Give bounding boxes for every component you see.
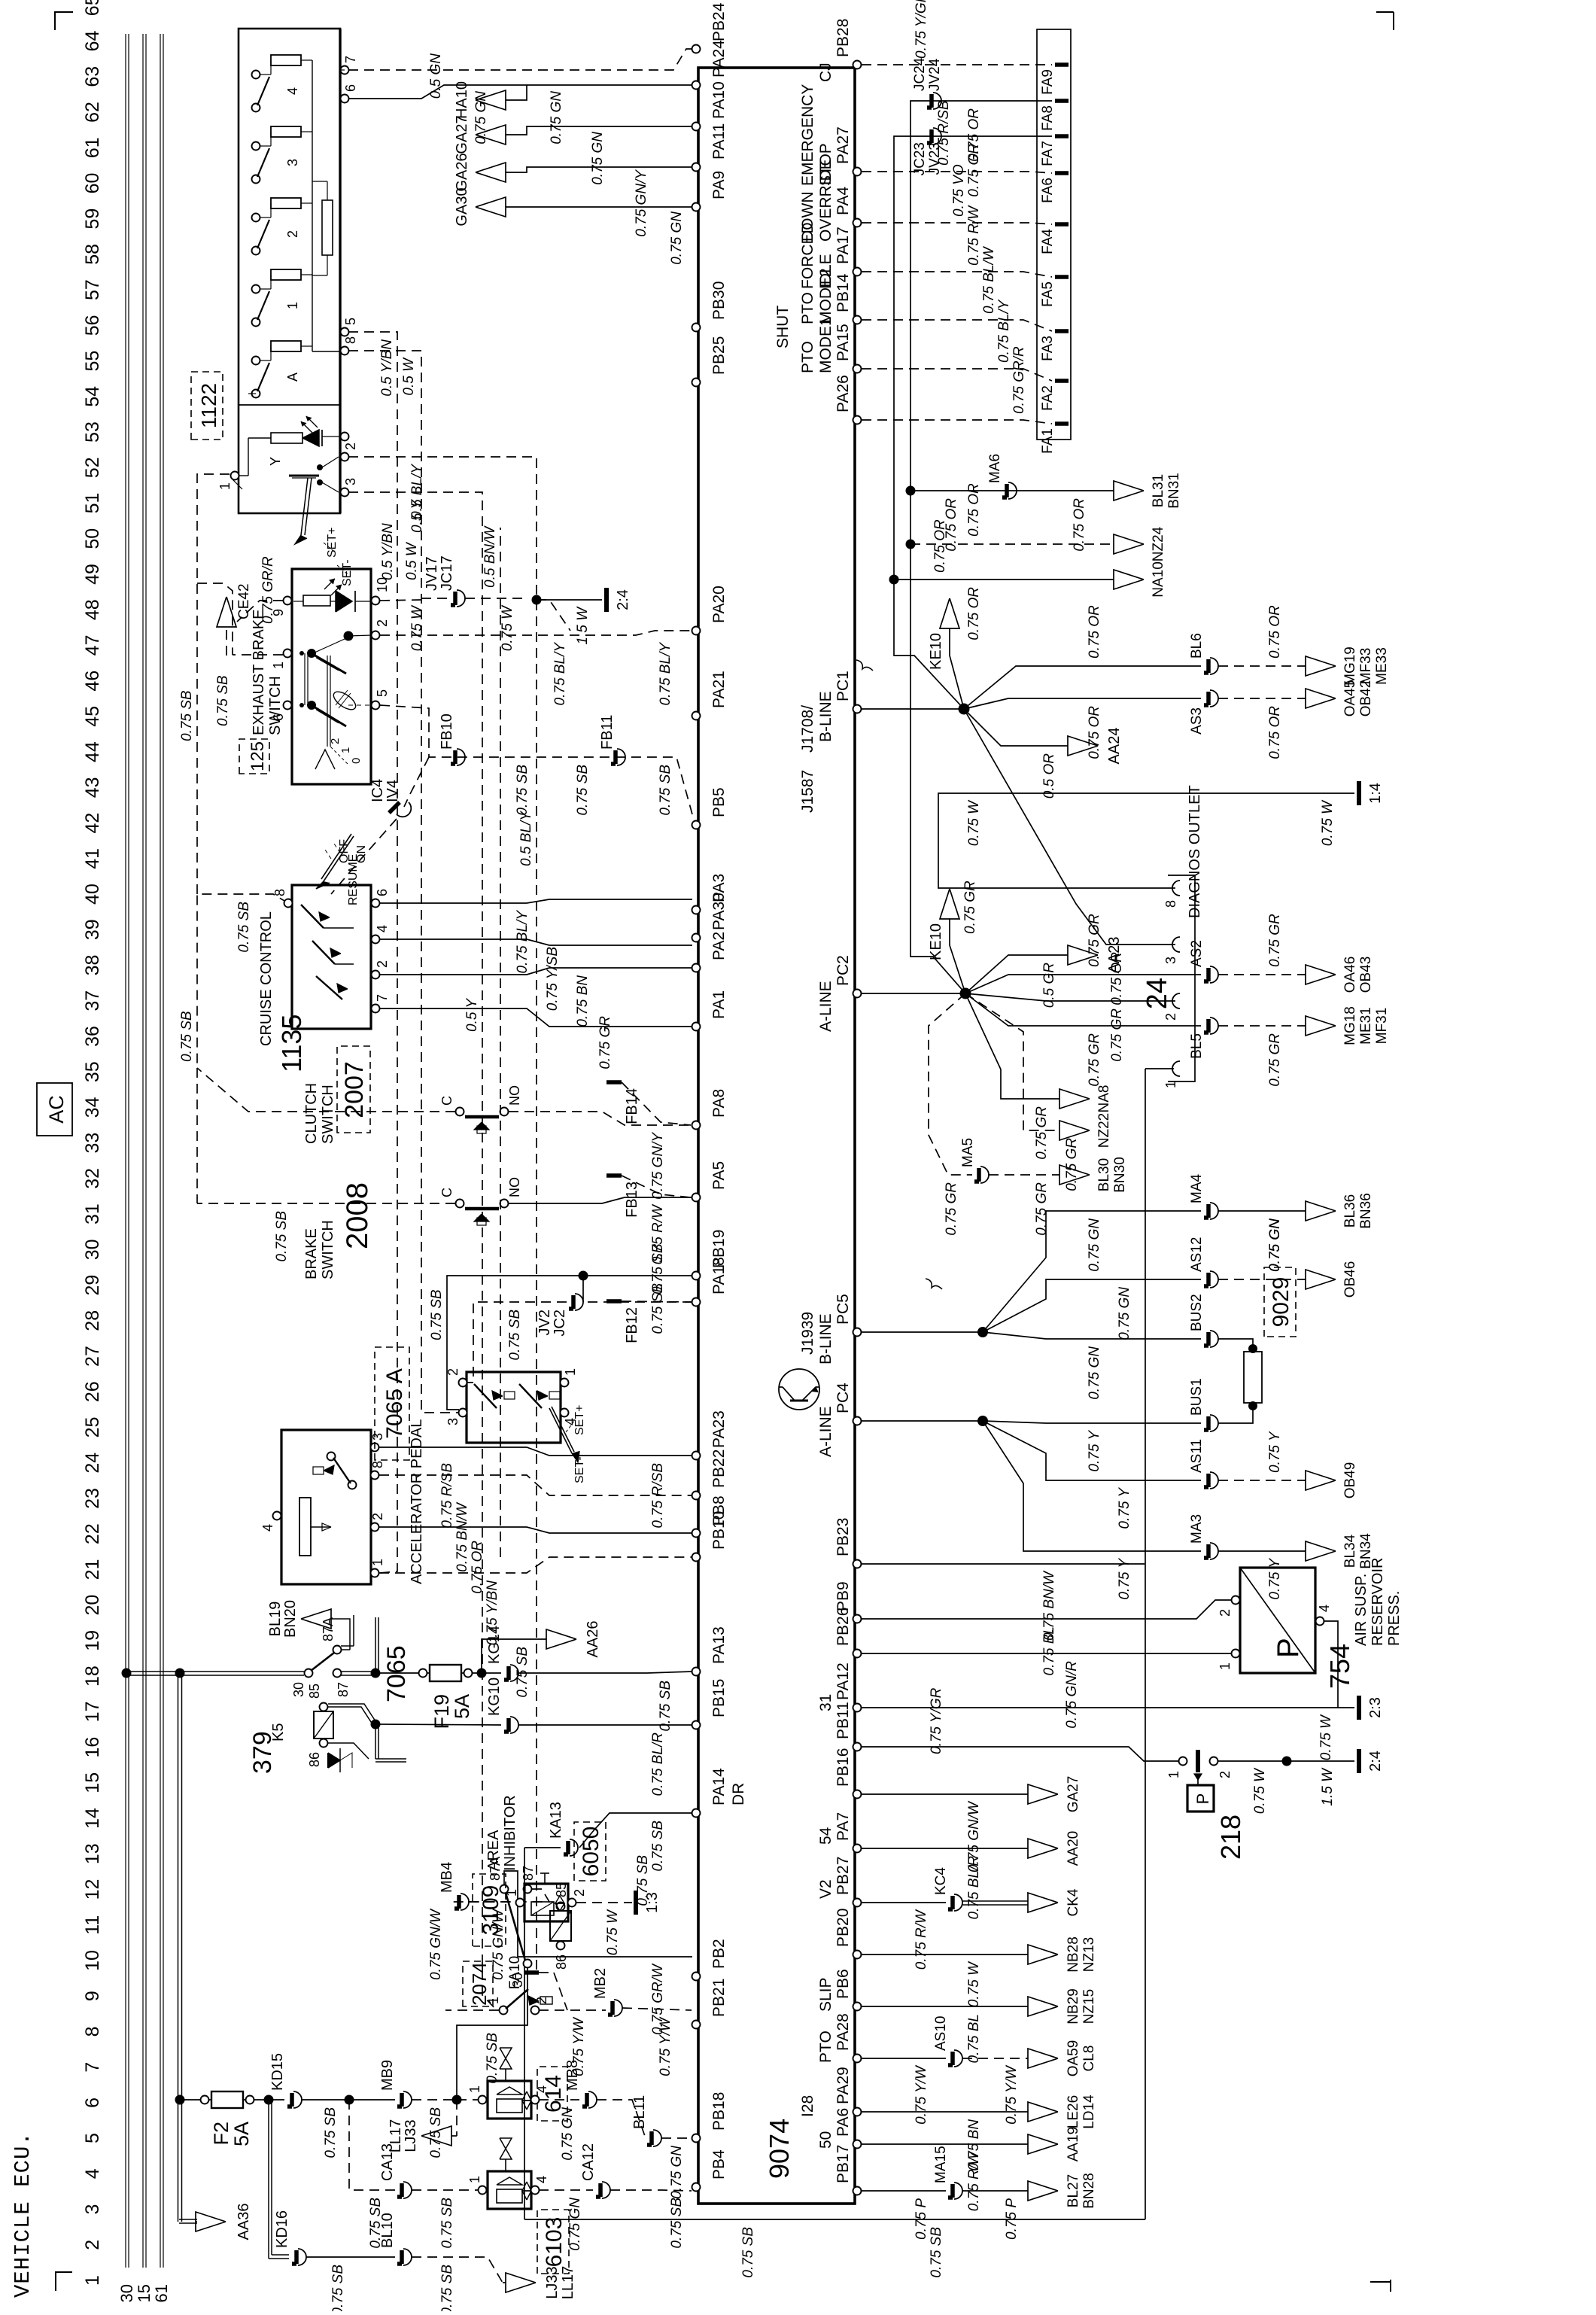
arrow NZ24 dashed <box>906 540 916 549</box>
valve 6050 AREA INHIBITOR <box>524 1884 568 1921</box>
ECU pin PA9 <box>692 203 701 211</box>
svg-text:31: 31 <box>82 1203 103 1224</box>
1122 long resistor <box>322 200 333 255</box>
svg-text:21: 21 <box>82 1559 103 1580</box>
relay 3109 reference box <box>473 1874 506 1946</box>
relay 3109 contact 30 <box>524 1960 532 1968</box>
svg-text:0.75 SB: 0.75 SB <box>740 2227 756 2278</box>
svg-text:NO: NO <box>507 1085 522 1106</box>
svg-text:16: 16 <box>82 1737 103 1758</box>
svg-text:87A: 87A <box>321 1617 336 1641</box>
svg-text:GA27: GA27 <box>454 115 470 154</box>
svg-text:PB24: PB24 <box>710 2 728 41</box>
relay 3109 coil pin 85 <box>557 1903 565 1911</box>
long dashed 0.5 BL/Y from 1122 pin2 to FA10 <box>348 457 537 1973</box>
cruise pin 4 <box>372 935 380 944</box>
J1708 A-line wire to FA8 <box>910 101 1052 993</box>
svg-text:MB9: MB9 <box>379 2060 396 2091</box>
svg-text:15: 15 <box>135 2284 154 2302</box>
wire BUS1 to resistor 9029 <box>1218 1406 1253 1423</box>
1122 Y switch <box>317 464 323 470</box>
AC reference box <box>37 1083 72 1136</box>
relay K5 coil pin 85 <box>320 1703 328 1711</box>
svg-text:0.75 SB: 0.75 SB <box>515 765 530 816</box>
svg-text:MG19: MG19 <box>1342 646 1358 686</box>
1122 pin 1 <box>231 472 239 480</box>
svg-text:PA12: PA12 <box>834 1662 852 1700</box>
svg-text:46: 46 <box>82 671 103 692</box>
ground 1:3 <box>634 1891 638 1915</box>
svg-text:0.75 GN: 0.75 GN <box>1267 1218 1283 1272</box>
svg-text:7065: 7065 <box>382 1645 411 1702</box>
svg-text:A-LINE: A-LINE <box>817 1406 834 1457</box>
svg-text:KA13: KA13 <box>548 1802 564 1839</box>
arrow LJ33 LL17 bottom <box>503 2282 506 2283</box>
connector CA12 <box>602 2182 610 2198</box>
svg-text:41: 41 <box>82 848 103 869</box>
wire PC2 to star <box>862 993 965 994</box>
svg-text:0.75 Y/SB: 0.75 Y/SB <box>545 947 561 1011</box>
connector AS2 <box>1210 966 1218 983</box>
junction MA6 wire <box>906 486 916 496</box>
connector BUS1 <box>1210 1415 1218 1431</box>
svg-text:B-LINE: B-LINE <box>817 1313 834 1364</box>
svg-text:0.75 OR: 0.75 OR <box>966 587 982 640</box>
svg-text:FB13: FB13 <box>624 1182 640 1218</box>
ECU pin PB14 <box>853 316 862 324</box>
1125 pin 10 <box>372 597 380 605</box>
wire 1125 pin1 feed <box>233 654 283 656</box>
svg-text:OB43: OB43 <box>1358 957 1374 993</box>
svg-text:0.75 W: 0.75 W <box>1252 1767 1268 1814</box>
svg-text:PB5: PB5 <box>710 787 728 817</box>
svg-text:ME31: ME31 <box>1358 1007 1374 1045</box>
ECU pin PB8 <box>692 1529 701 1538</box>
svg-text:0.75 W: 0.75 W <box>966 1961 982 2007</box>
1122 pin 6 <box>341 95 349 103</box>
svg-text:OA46: OA46 <box>1342 957 1358 993</box>
svg-text:30: 30 <box>82 1239 103 1260</box>
wire PC5 to AS12 <box>983 1279 1201 1332</box>
svg-text:0.75 SB: 0.75 SB <box>439 2198 455 2249</box>
valve 6050 pin 2 <box>568 1899 576 1907</box>
svg-text:PA4: PA4 <box>834 187 852 215</box>
svg-text:RESERVOIR: RESERVOIR <box>1370 1558 1386 1646</box>
1125 reference box <box>239 739 269 774</box>
pedal potentiometer <box>299 1498 311 1556</box>
svg-text:0.75 Y/W: 0.75 Y/W <box>658 2016 673 2076</box>
double wire bus30 down to K5 <box>126 1675 304 1676</box>
svg-text:MA3: MA3 <box>1189 1514 1205 1544</box>
svg-text:34: 34 <box>82 1097 103 1118</box>
svg-text:3: 3 <box>445 1418 461 1425</box>
svg-text:AIR SUSP.: AIR SUSP. <box>1353 1574 1370 1646</box>
svg-text:CA12: CA12 <box>580 2143 597 2181</box>
svg-text:DR: DR <box>730 1783 747 1805</box>
svg-text:FA1: FA1 <box>1040 428 1056 454</box>
svg-text:60: 60 <box>82 173 103 194</box>
arrow BL19 BN20 <box>341 1649 350 1650</box>
svg-text:AS12: AS12 <box>1189 1237 1205 1272</box>
svg-text:PB30: PB30 <box>710 281 728 320</box>
svg-text:INHIBITOR: INHIBITOR <box>502 1795 518 1871</box>
wire PA4 to FA4 <box>862 223 1052 224</box>
svg-text:36: 36 <box>82 1026 103 1047</box>
fuse F19 5A <box>430 1665 461 1681</box>
svg-text:0.75 R/W: 0.75 R/W <box>966 2150 982 2211</box>
ECU pin PA27 <box>853 168 862 176</box>
svg-text:PB11: PB11 <box>834 1702 852 1739</box>
svg-text:45: 45 <box>82 706 103 727</box>
connector BL10 <box>403 2249 412 2265</box>
svg-text:54: 54 <box>817 1827 834 1845</box>
ECU pin PA28 <box>853 2055 862 2063</box>
svg-text:BL31: BL31 <box>1151 474 1166 507</box>
tick FB13 <box>606 1173 622 1178</box>
relay K5 contact 87 <box>333 1669 342 1678</box>
svg-text:FA10: FA10 <box>507 1956 523 1989</box>
svg-text:A: A <box>285 373 300 382</box>
wire junction to valve 614 pin1 <box>457 2099 479 2101</box>
wire PB9 to 754 pin2 <box>862 1600 1231 1619</box>
wire PB28 to FA9 <box>862 64 1052 65</box>
connector MA3 <box>1210 1543 1218 1559</box>
relay K5 contact 30 <box>305 1669 313 1678</box>
svg-text:GA30: GA30 <box>454 187 470 226</box>
svg-text:ACCELERATOR PEDAL: ACCELERATOR PEDAL <box>409 1419 425 1584</box>
svg-text:0.75 SB: 0.75 SB <box>669 2198 685 2249</box>
svg-text:4: 4 <box>534 2176 549 2183</box>
wire PB27 to KC4 <box>862 1902 946 1903</box>
1122 pin 2 <box>341 453 349 461</box>
svg-text:2: 2 <box>445 1368 461 1376</box>
svg-text:0.75 SB: 0.75 SB <box>658 765 673 816</box>
1122 pin 3 <box>341 488 349 497</box>
svg-text:25: 25 <box>82 1417 103 1438</box>
svg-text:0.75 W: 0.75 W <box>605 1909 621 1955</box>
svg-text:P: P <box>1272 1638 1305 1658</box>
svg-text:47: 47 <box>82 635 103 656</box>
svg-text:PB20: PB20 <box>834 1909 852 1947</box>
svg-text:PA23: PA23 <box>710 1410 728 1448</box>
svg-text:0.75 SB: 0.75 SB <box>429 1289 445 1340</box>
FA pin FA7 <box>1055 134 1069 138</box>
svg-text:62: 62 <box>82 102 103 123</box>
ECU pin PB23 <box>853 1560 862 1568</box>
FA pin FA3 <box>1055 329 1069 333</box>
svg-text:2: 2 <box>534 1997 549 2004</box>
switch 2074 pin 1 <box>500 2006 508 2015</box>
long dashed 0.5 Y/BN from 1122 pin5 <box>348 332 397 1573</box>
svg-text:0.75 Y: 0.75 Y <box>1087 1430 1102 1472</box>
svg-text:0.75 BL/R: 0.75 BL/R <box>966 1856 982 1920</box>
svg-text:PB10: PB10 <box>710 1511 728 1550</box>
svg-text:28: 28 <box>82 1310 103 1331</box>
svg-text:FA3: FA3 <box>1040 336 1056 361</box>
svg-text:1: 1 <box>504 1889 519 1897</box>
svg-text:218: 218 <box>1215 1815 1246 1860</box>
svg-text:0.75 GN: 0.75 GN <box>560 2107 576 2161</box>
svg-text:CJ: CJ <box>817 62 834 82</box>
svg-text:IV4: IV4 <box>385 780 401 802</box>
svg-text:0.75 OR: 0.75 OR <box>944 498 959 552</box>
svg-text:2:4: 2:4 <box>615 589 631 610</box>
svg-text:5: 5 <box>343 318 358 325</box>
svg-text:JC17: JC17 <box>439 555 455 591</box>
svg-text:2: 2 <box>375 960 390 968</box>
svg-text:CL8: CL8 <box>1081 2046 1097 2072</box>
wire 1125 pin9 feed GR/R <box>237 601 283 622</box>
9029 reference box <box>1264 1267 1296 1337</box>
FA pin FA5 <box>1055 275 1069 279</box>
svg-text:JV17: JV17 <box>424 556 440 591</box>
ECU pin PB19 <box>692 1272 701 1280</box>
svg-text:PA7: PA7 <box>834 1812 852 1841</box>
svg-text:0.75 R/W: 0.75 R/W <box>966 205 982 266</box>
svg-text:2: 2 <box>82 2240 103 2250</box>
wire MB9 branch to CA13 <box>349 2100 395 2190</box>
svg-text:2: 2 <box>1218 1771 1233 1778</box>
svg-text:8: 8 <box>343 336 358 344</box>
cruise pin 6 <box>372 899 380 908</box>
svg-text:OA59: OA59 <box>1066 2040 1081 2077</box>
svg-text:57: 57 <box>82 279 103 300</box>
svg-text:PB4: PB4 <box>710 2149 728 2180</box>
svg-text:1: 1 <box>217 482 233 490</box>
svg-text:0.75 GN: 0.75 GN <box>1087 1218 1102 1272</box>
754 pin 2 <box>1232 1596 1240 1605</box>
ECU pin PC2 <box>853 990 862 998</box>
pedal switch <box>348 1481 357 1489</box>
svg-text:ME33: ME33 <box>1374 647 1390 685</box>
svg-text:1:4: 1:4 <box>1367 783 1384 804</box>
svg-text:PA5: PA5 <box>710 1161 728 1190</box>
ECU pin PA11 <box>692 163 701 172</box>
svg-text:C: C <box>439 1188 454 1197</box>
svg-text:42: 42 <box>82 813 103 834</box>
connector MB4 <box>461 1894 469 1910</box>
svg-text:1: 1 <box>339 747 352 753</box>
svg-text:31: 31 <box>817 1694 834 1711</box>
svg-text:0.75 BL/Y: 0.75 BL/Y <box>658 642 673 706</box>
cruise pin 7 <box>372 1005 380 1013</box>
svg-text:PA21: PA21 <box>710 671 728 708</box>
connector BL6 <box>1210 658 1218 674</box>
svg-text:C: C <box>439 1096 454 1106</box>
valve 614 reference box <box>537 2067 567 2121</box>
pedal pin 3 <box>371 1443 379 1452</box>
1122 ladder wires <box>312 60 313 351</box>
valve 614 pin 4 <box>531 2096 540 2104</box>
svg-text:0.75 P: 0.75 P <box>914 2198 929 2240</box>
valve 6103 pin 1 <box>479 2186 487 2195</box>
sensor 218 P box <box>1187 1785 1214 1812</box>
svg-text:0.75 Y/W: 0.75 Y/W <box>1004 2064 1020 2125</box>
svg-text:K5: K5 <box>270 1723 287 1742</box>
svg-text:CK4: CK4 <box>1066 1888 1081 1916</box>
wire cruise2 to PA2 <box>379 968 692 975</box>
svg-text:1: 1 <box>370 1559 385 1566</box>
svg-text:6050: 6050 <box>579 1827 603 1877</box>
arrow NA10 <box>894 579 1114 580</box>
ECU pin PA29 <box>853 2108 862 2116</box>
valve 6103 pin 4 <box>531 2186 540 2195</box>
svg-text:38: 38 <box>82 955 103 976</box>
svg-text:4: 4 <box>375 925 390 932</box>
junction star PC1 <box>959 704 970 715</box>
svg-text:0.75 SB: 0.75 SB <box>929 2227 944 2278</box>
svg-text:2:4: 2:4 <box>1367 1751 1384 1772</box>
svg-text:LJ33: LJ33 <box>403 2119 419 2152</box>
wire PC5 to BUS2 <box>983 1332 1201 1339</box>
svg-text:PA9: PA9 <box>710 171 728 199</box>
svg-text:2008: 2008 <box>341 1182 374 1249</box>
svg-text:PTO: PTO <box>817 2031 834 2063</box>
svg-text:PB18: PB18 <box>710 2092 728 2131</box>
wire clutch NO to PA8 <box>509 1112 692 1125</box>
svg-text:30: 30 <box>291 1682 306 1697</box>
svg-text:2: 2 <box>285 230 300 238</box>
svg-text:35: 35 <box>82 1061 103 1082</box>
1122 pin 8 <box>341 347 349 355</box>
svg-text:NZ24: NZ24 <box>1151 526 1166 561</box>
relay K5 coil <box>314 1711 333 1739</box>
svg-text:GA26: GA26 <box>454 153 470 191</box>
svg-text:BN31: BN31 <box>1166 473 1182 509</box>
connector FA box <box>1037 29 1071 440</box>
svg-text:58: 58 <box>82 244 103 265</box>
ECU pin PA4 <box>853 219 862 227</box>
ECU pin PB22 <box>692 1492 701 1500</box>
relay K5 blade <box>311 1653 334 1671</box>
svg-text:1: 1 <box>1218 1662 1233 1670</box>
svg-text:8: 8 <box>82 2026 103 2037</box>
svg-text:BN30: BN30 <box>1112 1157 1128 1193</box>
arrow AA24 from PC1 <box>964 709 1068 746</box>
connector KG10 <box>510 1717 518 1733</box>
svg-text:0.5 BL/Y: 0.5 BL/Y <box>409 464 425 519</box>
svg-text:SHUT: SHUT <box>774 306 792 348</box>
svg-text:NA8: NA8 <box>1096 1085 1112 1113</box>
svg-text:JV24: JV24 <box>927 58 943 91</box>
diagnos outlet 24 <box>1172 1061 1180 1076</box>
ground 1:4 <box>1357 781 1361 805</box>
svg-text:0.75 GN/R: 0.75 GN/R <box>1064 1661 1080 1729</box>
junction NA10 wire <box>889 575 899 585</box>
ground 2:4 white <box>537 599 602 601</box>
wire PC1 to star <box>862 708 964 710</box>
svg-text:PC4: PC4 <box>834 1383 852 1413</box>
svg-text:PA27: PA27 <box>834 126 852 164</box>
wire CA12 to PB4 <box>610 2190 692 2191</box>
svg-text:0.75 BL/Y: 0.75 BL/Y <box>552 642 568 706</box>
svg-text:LE26: LE26 <box>1066 2095 1081 2128</box>
svg-text:SET+: SET+ <box>573 1405 586 1435</box>
svg-text:39: 39 <box>82 919 103 940</box>
svg-text:NO: NO <box>507 1177 522 1197</box>
svg-text:FB12: FB12 <box>624 1307 640 1343</box>
svg-text:0.75 GR/R: 0.75 GR/R <box>1011 346 1027 414</box>
svg-text:26: 26 <box>82 1381 103 1402</box>
connector JC24 JV24 <box>933 93 941 109</box>
svg-text:PA10: PA10 <box>710 81 728 119</box>
svg-text:0.75 GR: 0.75 GR <box>1109 1008 1125 1062</box>
pedal pin 1 <box>371 1569 379 1577</box>
svg-text:6103: 6103 <box>542 2217 567 2268</box>
ECU pin PA6 <box>853 2140 862 2149</box>
svg-text:NZ15: NZ15 <box>1081 1989 1097 2024</box>
wire MB4 to valve 6050 <box>469 1901 516 1903</box>
svg-text:VEHICLE ECU.: VEHICLE ECU. <box>11 2131 35 2298</box>
svg-text:0.75 BL/R: 0.75 BL/R <box>650 1732 666 1796</box>
svg-text:MA4: MA4 <box>1189 1174 1205 1204</box>
transistor symbol in ECU <box>779 1369 819 1410</box>
svg-text:0.75 SB: 0.75 SB <box>215 675 231 726</box>
svg-text:JC2: JC2 <box>552 1310 568 1337</box>
arrow AA26 branch <box>477 1669 487 1678</box>
svg-text:EMERGENCY: EMERGENCY <box>799 84 816 186</box>
pedal pin 2 <box>371 1523 379 1532</box>
squiggle continuation marks <box>856 660 873 671</box>
svg-text:754: 754 <box>1324 1644 1355 1689</box>
svg-text:0.75 SB: 0.75 SB <box>368 2198 384 2249</box>
connector CA13 <box>403 2182 412 2198</box>
svg-text:PB6: PB6 <box>834 1969 852 1999</box>
ECU pin PC5 <box>853 1328 862 1337</box>
wire MA15 to arrow BL27 BN28 <box>962 2190 1028 2192</box>
svg-text:SLIP: SLIP <box>817 1977 834 2012</box>
svg-text:0.75 GR: 0.75 GR <box>1087 1033 1102 1087</box>
ECU pin PA14 <box>692 1809 701 1818</box>
svg-text:0.75 W: 0.75 W <box>409 604 425 651</box>
svg-text:0.75 Y/BN: 0.75 Y/BN <box>485 1580 500 1646</box>
svg-text:MA6: MA6 <box>987 454 1003 483</box>
ECU pin PA24 <box>692 81 701 90</box>
svg-text:FA2: FA2 <box>1040 385 1056 411</box>
svg-text:5A: 5A <box>451 1694 473 1719</box>
svg-text:MB4: MB4 <box>439 1862 455 1893</box>
long dashed 0.5 W from 1122 pin8 <box>348 351 459 1413</box>
valve 6103 <box>488 2171 531 2209</box>
svg-text:0.5 Y/BN: 0.5 Y/BN <box>379 339 395 397</box>
ECU pin PB17 <box>853 2187 862 2195</box>
connector JC23 JV23 <box>933 128 941 144</box>
svg-text:PTO: PTO <box>799 341 816 373</box>
svg-text:MF33: MF33 <box>1358 648 1374 685</box>
wire PC1 to diagnos pin3 <box>964 709 1175 945</box>
svg-text:0.75 W: 0.75 W <box>500 604 515 651</box>
svg-text:PC1: PC1 <box>834 671 852 701</box>
SET+/SET- stalk at 1122 <box>301 478 308 535</box>
svg-text:AA36: AA36 <box>236 2204 252 2240</box>
wire K5 85 to KG10 (double) <box>328 1707 372 1724</box>
ECU pin PA17 <box>853 268 862 276</box>
frame corner mark top-right <box>55 12 73 30</box>
bus 61 wire <box>160 34 161 2268</box>
svg-text:6: 6 <box>82 2097 103 2108</box>
ground 2:3 <box>1357 1696 1361 1720</box>
ECU pin PA1 <box>692 1023 701 1031</box>
frame corner mark top-left <box>56 2272 72 2291</box>
relay K5 coil pin 86 <box>320 1739 328 1748</box>
junction dot white <box>1282 1757 1292 1766</box>
svg-text:50: 50 <box>817 2131 834 2149</box>
svg-text:5A: 5A <box>230 2122 253 2146</box>
svg-text:JC24: JC24 <box>912 57 928 91</box>
ECU pin PB10 <box>692 1553 701 1562</box>
junction on rail for F2 <box>175 2095 185 2105</box>
wire F2 junction to KD16 branch (double) <box>268 2100 269 2259</box>
